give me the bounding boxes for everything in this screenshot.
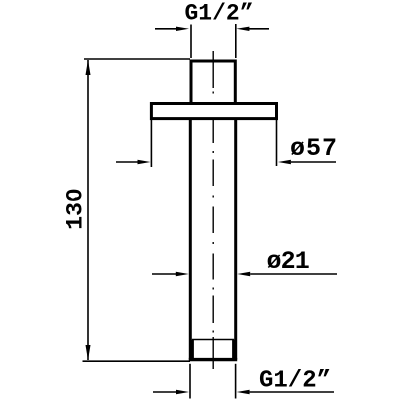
svg-text:ø57: ø57 bbox=[290, 134, 338, 163]
svg-text:G1/2”: G1/2” bbox=[185, 1, 254, 27]
svg-text:G1/2”: G1/2” bbox=[259, 368, 331, 395]
svg-text:ø21: ø21 bbox=[267, 247, 309, 276]
svg-text:130: 130 bbox=[62, 188, 88, 229]
